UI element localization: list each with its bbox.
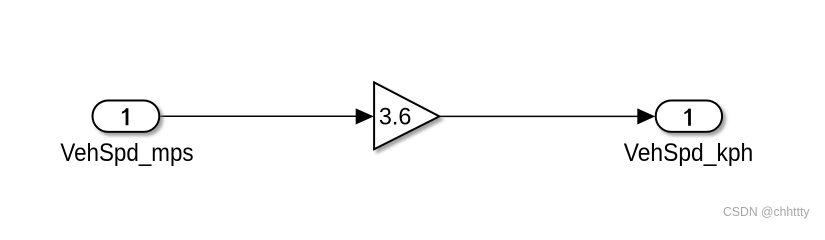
svg-text:CSDN @chhttty: CSDN @chhttty <box>723 204 810 219</box>
svg-text:3.6: 3.6 <box>379 104 412 131</box>
svg-text:VehSpd_kph: VehSpd_kph <box>624 139 754 167</box>
svg-text:VehSpd_mps: VehSpd_mps <box>60 139 193 167</box>
